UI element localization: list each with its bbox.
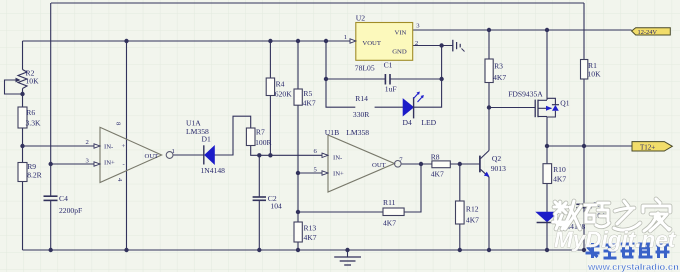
svg-text:78L05: 78L05 <box>355 63 375 72</box>
svg-text:R10: R10 <box>553 165 566 174</box>
svg-text:GND: GND <box>392 49 407 56</box>
earth ground near U2 pin2 <box>453 40 465 52</box>
wire ground rail <box>23 249 585 251</box>
node U1B pin6 net junctions <box>257 153 273 157</box>
diode D5 <box>537 212 558 222</box>
wire R7 bottom to U1B pin6 <box>251 146 322 156</box>
svg-text:IN+: IN+ <box>333 171 344 178</box>
capacitor C5 <box>576 204 591 207</box>
resistor R3 <box>485 59 493 83</box>
svg-text:2200pF: 2200pF <box>59 206 82 215</box>
wire R12 bottom lead <box>459 224 461 250</box>
svg-text:2: 2 <box>415 40 418 47</box>
wire C1 left lead from 5V branch <box>326 78 385 80</box>
voltage regulator U2 78L05 <box>350 23 413 61</box>
wire C5 top lead <box>583 146 585 204</box>
wire 5V branch down to R14 <box>326 41 355 107</box>
capacitor C4 <box>44 196 58 200</box>
wire left sense vertical to U1A pin3 and C4 <box>50 3 52 196</box>
wire R6 bottom to R9 top <box>22 128 24 163</box>
wire U1A pin2 input <box>23 145 95 147</box>
svg-text:MyDigit.net: MyDigit.net <box>554 227 677 252</box>
resistor R4 <box>266 78 274 96</box>
wire R13 bottom to ground rail <box>297 242 299 250</box>
node U1B pin5 net junctions <box>296 171 300 214</box>
svg-text:-: - <box>123 161 125 168</box>
node ground rail junctions <box>49 248 587 252</box>
svg-text:2: 2 <box>86 139 89 146</box>
wire Q1 upper lead to VIN rail <box>546 30 548 100</box>
node gate junction <box>487 105 491 109</box>
node VIN rail junctions <box>487 28 549 32</box>
svg-text:www.crystalradio.cn: www.crystalradio.cn <box>587 261 679 272</box>
svg-text:1: 1 <box>172 148 175 155</box>
svg-text:4K7: 4K7 <box>383 219 396 228</box>
transistor Q1 FDS9435A <box>535 98 559 117</box>
svg-text:R13: R13 <box>304 224 317 233</box>
wire D5 cathode to ground rail <box>546 223 548 250</box>
wire U2 pin3 VIN to 12-24V tag <box>413 29 632 31</box>
resistor R7 <box>246 128 255 146</box>
svg-text:OUT: OUT <box>372 162 386 169</box>
wire R2 wiper loop <box>5 80 23 94</box>
wire R1 bottom to T12 node <box>583 79 585 146</box>
wire R11 right lead up to U1B output <box>404 164 421 212</box>
svg-text:330R: 330R <box>353 110 370 119</box>
resistor R11 <box>383 208 404 216</box>
wire C2 bottom to ground rail <box>258 200 260 250</box>
wire R5 top lead from 5V rail <box>297 41 299 89</box>
wire R4 bottom to pin6 net <box>269 96 271 156</box>
svg-text:4K7: 4K7 <box>553 175 566 184</box>
svg-text:OUT: OUT <box>145 153 159 160</box>
wire U1A pin3 input <box>51 163 94 165</box>
svg-text:10K: 10K <box>588 70 602 79</box>
LED D4 <box>403 92 424 119</box>
svg-text:IN-: IN- <box>333 155 342 162</box>
transistor Q2 9013 <box>480 151 490 178</box>
diode D1 1N4148 <box>204 145 215 164</box>
wire R10 top lead <box>546 146 548 164</box>
wire R11 left lead to pin5 net <box>298 211 383 213</box>
svg-text:FDS9435A: FDS9435A <box>508 90 543 99</box>
svg-text:LM358: LM358 <box>346 128 369 137</box>
svg-text:D1: D1 <box>202 135 211 144</box>
svg-text:100R: 100R <box>255 138 272 147</box>
svg-text:C1: C1 <box>384 61 393 70</box>
wire left divider top (rail to R2) <box>22 41 24 70</box>
wire C5 bottom to ground rail <box>583 208 585 250</box>
svg-text:IN+: IN+ <box>104 160 115 167</box>
wire R1 top lead from top rail <box>583 3 585 60</box>
wire Q2 emitter to ground rail <box>488 177 490 250</box>
svg-text:VIN: VIN <box>395 30 407 37</box>
svg-text:LED: LED <box>421 118 436 127</box>
svg-text:U2: U2 <box>356 14 365 23</box>
svg-text:104: 104 <box>270 202 282 211</box>
wire U1B pin5 input <box>298 172 322 174</box>
svg-text:10K: 10K <box>26 77 40 86</box>
svg-text:1uF: 1uF <box>385 85 397 94</box>
resistor R1 <box>581 60 588 80</box>
wire C4 bottom to ground rail <box>50 201 52 251</box>
svg-text:4K7: 4K7 <box>304 233 317 242</box>
resistor R13 <box>294 222 302 242</box>
wire R9 bottom to ground rail <box>22 182 24 251</box>
wire R4 top lead from 5V rail <box>269 41 271 78</box>
svg-text:R3: R3 <box>494 62 503 71</box>
wire R10 bottom to D5 <box>546 184 548 213</box>
wire gate node down to Q2 collector <box>488 108 490 151</box>
wire gate node to Q1 gate <box>489 107 535 109</box>
wire U1B output to R8 <box>401 163 432 165</box>
wire U1A output to D1 <box>173 154 203 156</box>
wire R8 to Q2 base <box>450 163 480 165</box>
svg-text:1N4148: 1N4148 <box>201 166 226 175</box>
node GND net junctions <box>324 43 444 81</box>
svg-text:8.2R: 8.2R <box>27 171 42 180</box>
svg-text:T12+: T12+ <box>640 144 655 152</box>
svg-text:R14: R14 <box>355 94 368 103</box>
wire C2 top lead <box>258 155 260 196</box>
connector tag 12-24V <box>632 28 671 35</box>
node T12 junctions <box>545 144 586 148</box>
svg-text:R4: R4 <box>276 79 285 88</box>
svg-text:4K7: 4K7 <box>431 170 444 179</box>
wire T12 node to tag <box>547 145 632 147</box>
wire U2 pin2 GND to earth <box>413 45 453 47</box>
svg-text:12-24V: 12-24V <box>638 29 658 36</box>
svg-text:+: + <box>122 143 126 150</box>
svg-text:R5: R5 <box>303 89 312 98</box>
svg-text:4K7: 4K7 <box>303 99 316 108</box>
wire 5V rail VOUT to left divider <box>23 40 351 42</box>
svg-text:R12: R12 <box>466 205 479 214</box>
wire D4 cathode up to GND net <box>414 46 442 108</box>
wire top rail T12 sense <box>51 2 584 4</box>
resistor R10 <box>543 164 552 184</box>
svg-text:VOUT: VOUT <box>362 40 381 47</box>
resistor R9 <box>18 163 27 182</box>
op-amp U1B <box>322 135 401 192</box>
node 5V rail junctions <box>124 39 328 43</box>
svg-text:3.3K: 3.3K <box>26 118 41 127</box>
ground symbol bottom rail <box>334 250 361 265</box>
wire R14 to D4 anode <box>375 106 404 108</box>
svg-text:Q2: Q2 <box>492 154 501 163</box>
wire R3 top from VIN rail <box>488 30 490 59</box>
svg-text:620K: 620K <box>275 90 292 99</box>
resistor R8 <box>432 161 450 168</box>
svg-text:R6: R6 <box>26 108 35 117</box>
node left divider junctions <box>20 92 53 166</box>
svg-text:1: 1 <box>344 34 347 41</box>
svg-text:R8: R8 <box>431 153 440 162</box>
svg-text:Q1: Q1 <box>560 99 569 108</box>
wire C1 right lead to GND net <box>390 78 441 80</box>
svg-text:D4: D4 <box>403 118 412 127</box>
resistor R6 <box>18 107 27 128</box>
svg-text:C4: C4 <box>59 194 68 203</box>
wire Q1 lower lead to T12 node <box>546 117 548 146</box>
resistor R12 <box>456 201 465 224</box>
wire R12 top lead <box>459 164 461 201</box>
capacitor C2 <box>253 197 266 200</box>
svg-text:9013: 9013 <box>491 164 506 173</box>
svg-text:U1B: U1B <box>325 128 339 137</box>
svg-text:R7: R7 <box>256 128 265 137</box>
op-amp U1A <box>94 127 173 182</box>
wire R3 bottom to gate node <box>488 83 490 108</box>
wire R5 bottom through pin5 node to R13 <box>297 105 299 222</box>
node U1B output junctions <box>419 162 462 166</box>
resistor R5 <box>294 89 302 105</box>
wire R2 bottom to R6 top <box>22 89 24 108</box>
wire U1A power pins 8 and 4 <box>126 41 128 250</box>
potentiometer R2 <box>16 70 28 89</box>
svg-text:R11: R11 <box>383 198 396 207</box>
capacitor C1 <box>385 74 390 85</box>
wire D1 anode to R7 top <box>214 116 250 155</box>
svg-text:4K7: 4K7 <box>466 215 479 224</box>
svg-text:IN-: IN- <box>104 144 113 151</box>
connector tag T12+ <box>632 142 672 151</box>
svg-text:4K7: 4K7 <box>493 73 506 82</box>
